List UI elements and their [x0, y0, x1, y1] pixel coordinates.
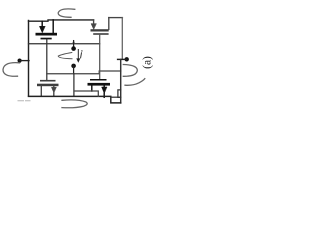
transistor M2: [91, 18, 123, 35]
wire right rail lower: [120, 59, 122, 103]
faint corner dashes: [18, 100, 30, 102]
wire left stub: [20, 60, 29, 62]
arc A2 left: [3, 63, 20, 77]
wire W1 horizontal: [29, 43, 100, 45]
wire bottom right segment: [111, 96, 121, 98]
wire gate line M1-M3: [46, 39, 48, 80]
wire gate line M2-M4: [99, 35, 101, 79]
current arrow i: [76, 50, 82, 63]
arc A6 bottom right: [125, 79, 145, 86]
node dot2: [71, 64, 76, 69]
wire top left: [29, 20, 94, 21]
svg-text:(a): (a): [142, 56, 154, 69]
wire left rail: [28, 21, 30, 97]
wire bottom right jog: [111, 97, 121, 103]
arc A3 center: [58, 53, 72, 59]
wire W2 horizontal: [47, 71, 121, 74]
wire right stub tick: [118, 58, 127, 60]
arc A5 bottom: [62, 100, 87, 108]
wire small box right: [118, 90, 121, 98]
wire center tail: [73, 74, 75, 96]
arc A1 top: [58, 9, 75, 17]
node dot1: [71, 46, 76, 51]
transistor M1: [36, 20, 58, 40]
node stub center top: [73, 41, 75, 48]
arc A4 right: [123, 65, 137, 77]
wire bottom: [29, 95, 111, 97]
wire right rail: [121, 18, 123, 59]
wire mid bottom: [74, 91, 98, 96]
transistor M4: [88, 79, 111, 97]
wire center stub to W2: [73, 66, 75, 74]
node right dot: [125, 57, 129, 61]
node left dot: [18, 59, 22, 63]
transistor M3: [37, 80, 59, 96]
